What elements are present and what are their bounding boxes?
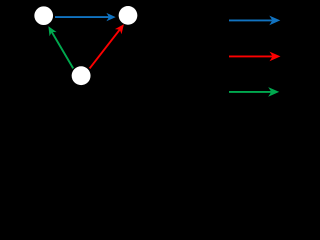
legend arrow red: [229, 52, 281, 62]
graph diagram with legend: [0, 0, 287, 117]
legend arrow green: [229, 87, 279, 97]
edge red C to B: [90, 24, 124, 68]
node B (top-right): [119, 6, 138, 25]
node A (top-left): [34, 6, 53, 25]
edge blue A to B: [55, 13, 116, 21]
edge green C to A: [48, 26, 73, 68]
node C (bottom): [72, 66, 91, 85]
legend arrow blue: [229, 16, 280, 26]
